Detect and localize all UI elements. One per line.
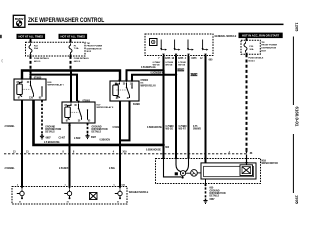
- svg-text:6687: 6687: [210, 199, 216, 201]
- svg-text:6612.0: 6612.0: [74, 61, 81, 63]
- armature circle: [180, 171, 185, 176]
- label HOT IN ACC RUN OR START: [239, 33, 283, 39]
- motor body: [201, 163, 256, 179]
- svg-text:WIPER MOTOR: WIPER MOTOR: [262, 163, 279, 165]
- svg-text:0.5GN/WS·GE: 0.5GN/WS·GE: [141, 67, 156, 69]
- motor heater element: [240, 165, 253, 176]
- fuse1 feed wire (dashed): [30, 56, 32, 79]
- svg-text:2.5BL: 2.5BL: [109, 168, 116, 170]
- svg-text:617GN: 617GN: [190, 75, 198, 77]
- title underline: [28, 24, 284, 26]
- svg-text:WS·GE: WS·GE: [153, 65, 161, 67]
- rear wiper relay (K6): [110, 80, 139, 101]
- svg-text:SW·GE: SW·GE: [178, 65, 186, 67]
- wire line B to relay2 pin3: [132, 75, 176, 81]
- svg-text:WIPER RELAY II: WIPER RELAY II: [97, 106, 114, 109]
- wire1 inside motor box: [164, 159, 182, 177]
- wire relay-mid pin30 down through bar to washer: [69, 123, 71, 187]
- nozzle 1: [17, 185, 24, 204]
- splice 606 on wiper motor wire 1: [162, 144, 165, 147]
- svg-text:C30: C30: [29, 98, 34, 100]
- svg-text:TM: TM: [87, 43, 90, 45]
- fuse2 feed wire (dashed): [70, 56, 72, 71]
- module wire 1: [163, 56, 165, 159]
- svg-text:HOT AT ALL TIMES: HOT AT ALL TIMES: [61, 35, 86, 39]
- front power distribution box (right, dashed): [241, 40, 260, 54]
- relay K27 bottom pin triangles: [68, 123, 70, 126]
- module bottom pin triangles: [162, 54, 164, 57]
- wire stub from HOT box 1 to fusebox: [30, 39, 32, 43]
- label HOT AT ALL TIMES 1: [17, 34, 46, 39]
- washer nozzle box (dashed): [12, 187, 127, 205]
- wire line A to relay2 pin2: [127, 70, 164, 81]
- svg-text:TM: TM: [261, 42, 264, 44]
- lower supply bus: [31, 75, 78, 101]
- svg-text:HOT IN ACC, RUN OR START: HOT IN ACC, RUN OR START: [242, 34, 280, 38]
- wire relay K6 pin87 jog into washer wire: [121, 101, 130, 140]
- right edge line lower: [293, 134, 294, 193]
- svg-text:FUSE DETAILS: FUSE DETAILS: [248, 57, 263, 60]
- svg-text:2.5GN/VI: 2.5GN/VI: [59, 168, 69, 170]
- svg-text:X255: X255: [165, 58, 171, 60]
- svg-text:0.5BK/HOUSE: 0.5BK/HOUSE: [146, 150, 162, 152]
- svg-text:6160.0-01: 6160.0-01: [294, 107, 299, 127]
- nozzle 3: [114, 185, 126, 204]
- svg-text:WS·RT: WS·RT: [179, 129, 187, 131]
- motor box top pin triangles: [162, 157, 164, 160]
- wire stub from HOT box 2 to fusebox: [70, 39, 72, 43]
- relay K6 bottom pin triangles: [119, 101, 121, 104]
- svg-text:618BK: 618BK: [133, 104, 140, 106]
- svg-text:C1407: C1407: [59, 137, 66, 140]
- wire fuse2 to relay-mid pin1: [70, 71, 72, 102]
- svg-text:1995: 1995: [295, 195, 300, 205]
- svg-text:FUSE DETAILS: FUSE DETAILS: [74, 57, 89, 60]
- svg-text:0.5BK/HOUSE: 0.5BK/HOUSE: [147, 127, 163, 129]
- heater element box: [90, 193, 98, 200]
- junction below relay K27 pin: [68, 124, 70, 126]
- wire stub from HOT box 3 to fusebox: [246, 38, 248, 41]
- module pin 2: [174, 40, 181, 51]
- right edge line upper: [293, 37, 294, 106]
- module inner symbol: [150, 39, 158, 46]
- fuse F1: [69, 44, 72, 55]
- svg-text:BOX: BOX: [87, 51, 92, 53]
- wire3 curve into armature: [185, 159, 188, 172]
- svg-text:WIPER RELAY I: WIPER RELAY I: [48, 84, 65, 87]
- svg-text:0.5GN/SW·GE: 0.5GN/SW·GE: [151, 72, 166, 74]
- svg-text:WS·GE: WS·GE: [166, 129, 174, 131]
- svg-text:FUSE DETAILS: FUSE DETAILS: [34, 57, 49, 60]
- label HOT AT ALL TIMES 2: [59, 34, 88, 39]
- svg-text:BOX: BOX: [261, 50, 266, 52]
- svg-text:GENERAL MODULE: GENERAL MODULE: [215, 35, 237, 38]
- relay1 bottom pin triangles: [21, 100, 23, 103]
- fuse F30: [244, 42, 247, 53]
- connector dashed line across page: [4, 153, 248, 155]
- ground symbol (motor): [203, 199, 207, 204]
- left margin tick: [0, 35, 2, 38]
- junction on bus bar: [68, 144, 71, 147]
- svg-text:0.5GN: 0.5GN: [113, 127, 120, 129]
- svg-text:DETAILS: DETAILS: [92, 131, 102, 134]
- svg-text:670800: 670800: [141, 80, 149, 82]
- svg-text:ZKE WIPER/WASHER CONTROL: ZKE WIPER/WASHER CONTROL: [28, 18, 105, 25]
- svg-text:HOT AT ALL TIMES: HOT AT ALL TIMES: [19, 35, 44, 39]
- svg-text:6687: 6687: [91, 137, 97, 139]
- svg-text:6687: 6687: [46, 138, 52, 140]
- svg-text:7.5A: 7.5A: [74, 47, 79, 50]
- svg-text:6612.0: 6612.0: [34, 61, 41, 63]
- general module box (dashed): [145, 34, 213, 56]
- svg-text:2.5GN/BL: 2.5GN/BL: [5, 126, 16, 128]
- bus bar from relay1 to relay K6: [34, 101, 164, 145]
- wiper motor box (dashed): [156, 159, 261, 184]
- wire relay K6 pin85 down to washer: [119, 101, 121, 187]
- F30 feed wire dashed down the page: [246, 54, 248, 151]
- nozzle 2: [64, 185, 71, 204]
- module pin 4: [202, 40, 209, 51]
- upper supply bus: [22, 71, 120, 82]
- wire relay-mid pin85 to ground: [87, 123, 89, 134]
- wire relay1 pin87 down to washer box: [21, 100, 23, 187]
- svg-text:30A: 30A: [34, 47, 38, 50]
- svg-text:DETAILS: DETAILS: [210, 195, 220, 198]
- park switch circle: [191, 170, 198, 177]
- svg-text:670800: 670800: [83, 100, 91, 102]
- svg-text:FRONT POWER: FRONT POWER: [87, 46, 103, 48]
- svg-text:X255: X255: [178, 58, 184, 60]
- module pin 1: [160, 40, 167, 51]
- svg-text:DISTRIBUTION: DISTRIBUTION: [87, 48, 102, 50]
- module wire 4: [205, 56, 207, 163]
- svg-text:WIPER RELAY: WIPER RELAY: [141, 84, 157, 87]
- wiper relay II (K27, lower middle): [62, 101, 95, 123]
- ground symbol (relay1): [40, 134, 44, 139]
- module pin 3: [187, 40, 194, 51]
- splice tag 617GN: [191, 73, 198, 76]
- svg-text:X255: X255: [191, 58, 197, 60]
- svg-text:DETAILS: DETAILS: [45, 131, 55, 134]
- front power distribution box (left, dashed): [26, 42, 86, 56]
- svg-text:30A: 30A: [249, 48, 253, 51]
- svg-text:1205: 1205: [295, 23, 300, 33]
- fuse F22: [29, 44, 32, 55]
- svg-text:6612.0: 6612.0: [248, 60, 255, 62]
- svg-text:2.5GN/BL: 2.5GN/BL: [5, 168, 16, 170]
- svg-text:618GN: 618GN: [177, 70, 185, 72]
- wiper relay I (K26): [14, 78, 46, 100]
- brush square: [175, 172, 178, 175]
- svg-text:FRONT POWER: FRONT POWER: [261, 45, 277, 47]
- svg-text:SW/WS: SW/WS: [193, 129, 201, 131]
- motor ground wire: [205, 179, 207, 184]
- wire relay1 pin85 to ground: [41, 100, 43, 135]
- splice tag 618GN: [177, 68, 184, 71]
- svg-text:WASHER NOZZLE: WASHER NOZZLE: [129, 191, 149, 194]
- BMW logo box: [13, 15, 25, 27]
- wire2 curve into armature: [176, 159, 181, 172]
- module wire 2: [175, 56, 177, 159]
- ground symbol (relay-mid): [85, 134, 89, 139]
- fusebox pin triangles: [29, 41, 31, 44]
- svg-text:2.5BR: 2.5BR: [74, 138, 81, 140]
- svg-text:0.5BK/GN: 0.5BK/GN: [100, 140, 111, 142]
- svg-text:WS·GE: WS·GE: [165, 65, 173, 67]
- module wire 3: [188, 56, 190, 159]
- F30 wire below connector: [246, 155, 248, 166]
- svg-text:DISTRIBUTION: DISTRIBUTION: [261, 48, 276, 50]
